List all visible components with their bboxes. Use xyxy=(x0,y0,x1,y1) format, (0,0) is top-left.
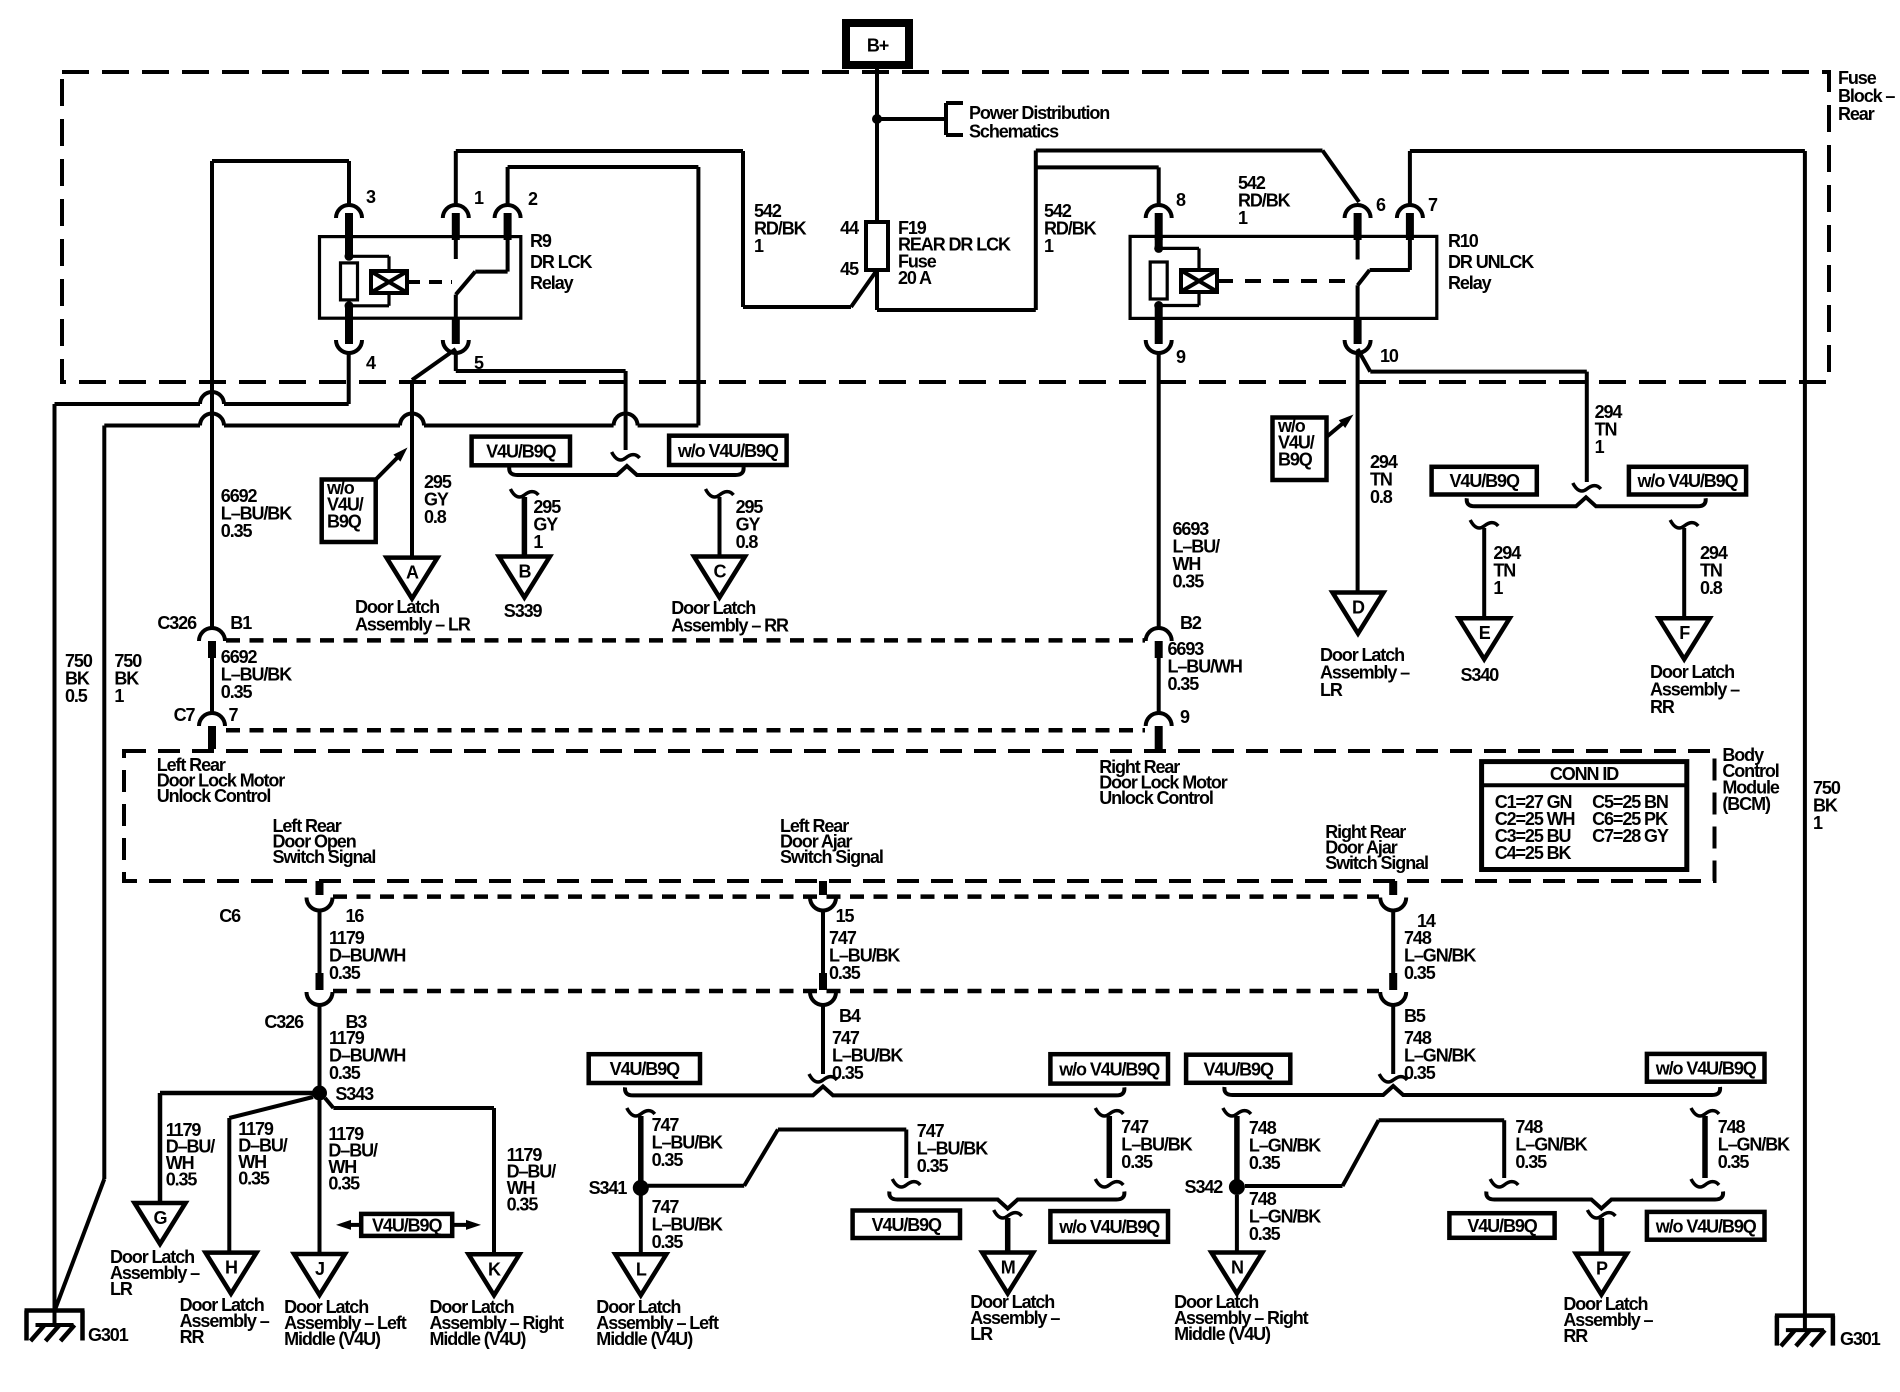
svg-text:0.35: 0.35 xyxy=(328,1173,360,1193)
svg-text:0.35: 0.35 xyxy=(1718,1152,1750,1172)
svg-text:15: 15 xyxy=(836,906,855,926)
svg-text:LR: LR xyxy=(970,1324,993,1344)
svg-text:B+: B+ xyxy=(867,36,889,56)
svg-text:V4U/B9Q: V4U/B9Q xyxy=(610,1059,680,1079)
svg-text:44: 44 xyxy=(840,218,859,238)
svg-text:0.35: 0.35 xyxy=(1121,1152,1153,1172)
svg-text:0.8: 0.8 xyxy=(1370,487,1393,507)
svg-text:Middle (V4U): Middle (V4U) xyxy=(596,1329,693,1349)
svg-text:Switch Signal: Switch Signal xyxy=(780,847,883,867)
svg-text:Unlock Control: Unlock Control xyxy=(1099,788,1213,808)
svg-text:0.35: 0.35 xyxy=(166,1169,198,1189)
svg-text:(BCM): (BCM) xyxy=(1722,794,1771,814)
svg-text:F: F xyxy=(1679,623,1690,643)
svg-text:1: 1 xyxy=(1493,578,1503,598)
svg-text:9: 9 xyxy=(1176,347,1186,367)
svg-text:B9Q: B9Q xyxy=(1278,450,1313,470)
svg-text:Middle (V4U): Middle (V4U) xyxy=(430,1329,527,1349)
svg-text:K: K xyxy=(488,1259,501,1279)
svg-text:G301: G301 xyxy=(88,1325,129,1345)
svg-text:0.8: 0.8 xyxy=(736,532,759,552)
svg-text:C: C xyxy=(714,562,727,582)
svg-text:Unlock Control: Unlock Control xyxy=(157,786,271,806)
svg-text:V4U/B9Q: V4U/B9Q xyxy=(372,1215,442,1235)
svg-text:w/o V4U/B9Q: w/o V4U/B9Q xyxy=(677,441,779,461)
svg-text:D: D xyxy=(1352,598,1365,618)
svg-text:S342: S342 xyxy=(1185,1177,1224,1197)
svg-text:0.35: 0.35 xyxy=(1173,571,1205,591)
svg-text:0.35: 0.35 xyxy=(652,1150,684,1170)
svg-text:V4U/B9Q: V4U/B9Q xyxy=(1450,471,1520,491)
svg-text:C7: C7 xyxy=(174,705,196,725)
svg-text:C326: C326 xyxy=(264,1012,304,1032)
svg-text:0.35: 0.35 xyxy=(221,521,253,541)
svg-text:RR: RR xyxy=(1563,1326,1588,1346)
svg-text:Switch Signal: Switch Signal xyxy=(1325,853,1428,873)
svg-text:B: B xyxy=(518,562,531,582)
svg-text:1: 1 xyxy=(533,532,543,552)
svg-text:G301: G301 xyxy=(1840,1329,1881,1349)
svg-text:C4=25 BK: C4=25 BK xyxy=(1495,843,1572,863)
svg-text:C7=28 GY: C7=28 GY xyxy=(1592,826,1669,846)
svg-text:LR: LR xyxy=(1320,680,1343,700)
svg-text:DR UNLCK: DR UNLCK xyxy=(1448,252,1534,272)
svg-text:S340: S340 xyxy=(1461,665,1500,685)
svg-text:w/o V4U/B9Q: w/o V4U/B9Q xyxy=(1058,1059,1160,1079)
svg-text:P: P xyxy=(1596,1259,1608,1279)
svg-text:Rear: Rear xyxy=(1838,104,1875,124)
svg-text:0.35: 0.35 xyxy=(238,1168,270,1188)
svg-text:G: G xyxy=(154,1208,167,1228)
svg-text:V4U/B9Q: V4U/B9Q xyxy=(1467,1216,1537,1236)
svg-text:16: 16 xyxy=(346,906,365,926)
svg-text:0.8: 0.8 xyxy=(1700,578,1723,598)
svg-text:9: 9 xyxy=(1180,707,1190,727)
svg-text:B9Q: B9Q xyxy=(327,512,362,532)
svg-text:20 A: 20 A xyxy=(898,268,932,288)
svg-text:0.35: 0.35 xyxy=(507,1194,539,1214)
svg-text:0.35: 0.35 xyxy=(917,1156,949,1176)
svg-text:RR: RR xyxy=(180,1327,205,1347)
svg-text:V4U/B9Q: V4U/B9Q xyxy=(486,441,556,461)
svg-text:1: 1 xyxy=(1595,437,1605,457)
svg-text:S339: S339 xyxy=(504,601,543,621)
svg-text:B5: B5 xyxy=(1404,1006,1426,1026)
svg-text:M: M xyxy=(1001,1258,1015,1278)
svg-text:0.35: 0.35 xyxy=(1249,1153,1281,1173)
svg-text:Middle (V4U): Middle (V4U) xyxy=(1174,1324,1271,1344)
svg-text:0.35: 0.35 xyxy=(1168,674,1200,694)
svg-text:J: J xyxy=(315,1259,324,1279)
svg-text:w/o V4U/B9Q: w/o V4U/B9Q xyxy=(1655,1058,1757,1078)
svg-text:1: 1 xyxy=(1813,813,1823,833)
svg-text:4: 4 xyxy=(366,353,376,373)
svg-text:Power Distribution: Power Distribution xyxy=(969,103,1109,123)
svg-text:B2: B2 xyxy=(1180,613,1202,633)
svg-text:H: H xyxy=(225,1258,237,1278)
svg-text:1: 1 xyxy=(754,236,764,256)
svg-text:Block –: Block – xyxy=(1838,86,1895,106)
svg-text:RR: RR xyxy=(1650,697,1675,717)
svg-text:6: 6 xyxy=(1376,195,1386,215)
svg-text:0.8: 0.8 xyxy=(424,507,447,527)
svg-text:0.35: 0.35 xyxy=(221,682,253,702)
svg-text:w/o V4U/B9Q: w/o V4U/B9Q xyxy=(1655,1216,1757,1236)
svg-text:Relay: Relay xyxy=(1448,273,1492,293)
svg-text:Middle (V4U): Middle (V4U) xyxy=(284,1329,381,1349)
svg-text:1: 1 xyxy=(1044,236,1054,256)
svg-text:10: 10 xyxy=(1380,346,1399,366)
svg-text:w/o V4U/B9Q: w/o V4U/B9Q xyxy=(1058,1217,1160,1237)
svg-text:7: 7 xyxy=(1428,195,1438,215)
svg-text:0.35: 0.35 xyxy=(1404,963,1436,983)
svg-text:R10: R10 xyxy=(1448,231,1479,251)
svg-text:C326: C326 xyxy=(157,613,197,633)
svg-text:DR LCK: DR LCK xyxy=(530,252,592,272)
svg-text:R9: R9 xyxy=(530,231,552,251)
svg-text:3: 3 xyxy=(366,187,376,207)
svg-text:Relay: Relay xyxy=(530,273,574,293)
svg-text:B4: B4 xyxy=(839,1006,861,1026)
svg-text:C6: C6 xyxy=(219,906,241,926)
svg-text:1: 1 xyxy=(474,188,484,208)
svg-text:8: 8 xyxy=(1176,190,1186,210)
svg-text:0.35: 0.35 xyxy=(1249,1224,1281,1244)
svg-text:Fuse: Fuse xyxy=(1838,68,1877,88)
svg-text:Schematics: Schematics xyxy=(969,121,1059,141)
svg-text:V4U/B9Q: V4U/B9Q xyxy=(1204,1059,1274,1079)
svg-text:Assembly – RR: Assembly – RR xyxy=(671,615,789,635)
svg-text:N: N xyxy=(1231,1258,1243,1278)
svg-text:0.35: 0.35 xyxy=(652,1232,684,1252)
svg-text:E: E xyxy=(1479,623,1491,643)
svg-text:A: A xyxy=(406,563,419,583)
svg-text:Switch Signal: Switch Signal xyxy=(273,847,376,867)
svg-text:CONN ID: CONN ID xyxy=(1550,764,1619,784)
svg-text:45: 45 xyxy=(840,259,859,279)
svg-text:0.35: 0.35 xyxy=(329,1063,361,1083)
svg-text:2: 2 xyxy=(528,189,538,209)
svg-text:7: 7 xyxy=(229,705,239,725)
svg-text:S343: S343 xyxy=(335,1084,374,1104)
svg-text:1: 1 xyxy=(114,686,124,706)
svg-text:0.35: 0.35 xyxy=(1404,1063,1436,1083)
svg-text:0.35: 0.35 xyxy=(329,963,361,983)
svg-text:LR: LR xyxy=(110,1279,133,1299)
svg-text:0.5: 0.5 xyxy=(65,686,88,706)
svg-text:0.35: 0.35 xyxy=(829,963,861,983)
svg-text:S341: S341 xyxy=(589,1178,628,1198)
svg-text:1: 1 xyxy=(1238,208,1248,228)
svg-text:B1: B1 xyxy=(230,613,252,633)
svg-text:w/o V4U/B9Q: w/o V4U/B9Q xyxy=(1637,471,1739,491)
svg-text:L: L xyxy=(636,1259,647,1279)
svg-text:Assembly – LR: Assembly – LR xyxy=(355,614,471,634)
svg-text:V4U/B9Q: V4U/B9Q xyxy=(872,1215,942,1235)
svg-text:0.35: 0.35 xyxy=(1515,1152,1547,1172)
